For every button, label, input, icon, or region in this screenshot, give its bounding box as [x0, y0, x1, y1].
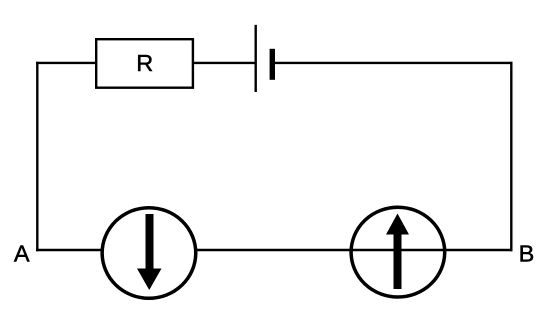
svg-text:R: R	[136, 50, 153, 76]
svg-text:B: B	[519, 241, 535, 267]
svg-text:A: A	[14, 241, 30, 267]
